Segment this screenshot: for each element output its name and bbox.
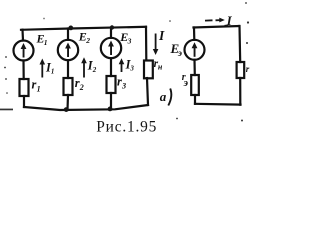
svg-text:2: 2 (92, 66, 97, 74)
svg-text:3: 3 (129, 65, 134, 73)
svg-text:3: 3 (127, 36, 132, 45)
svg-text:I: I (226, 13, 233, 28)
svg-text:2: 2 (85, 36, 90, 45)
svg-text:а: а (160, 89, 167, 104)
svg-text:I: I (158, 28, 165, 43)
svg-text:1: 1 (37, 85, 41, 94)
svg-text:2: 2 (79, 83, 84, 92)
svg-text:э: э (183, 78, 189, 89)
svg-text:3: 3 (121, 82, 126, 91)
svg-text:r: r (246, 64, 250, 74)
svg-text:1: 1 (51, 68, 55, 76)
svg-text:э: э (177, 49, 182, 59)
svg-text:н: н (158, 63, 163, 72)
svg-text:1: 1 (44, 38, 48, 47)
svg-text:Рис.1.95: Рис.1.95 (96, 119, 157, 136)
